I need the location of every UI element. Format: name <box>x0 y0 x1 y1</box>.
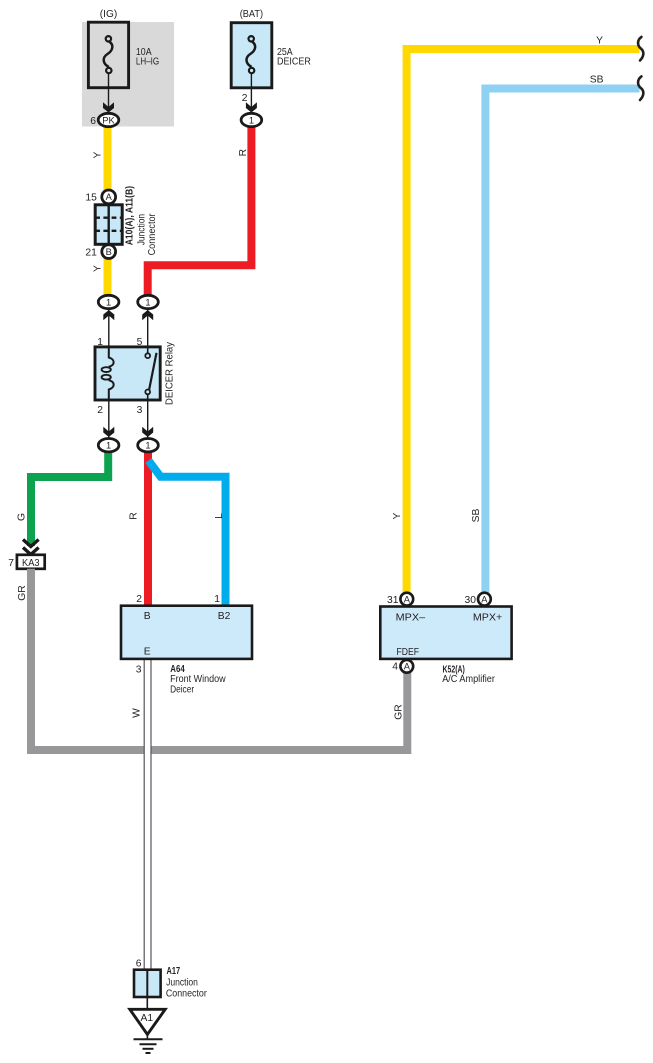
svg-text:Y: Y <box>92 265 103 272</box>
fuse 10A element <box>104 41 113 67</box>
shaded IG fuse region <box>82 22 174 127</box>
svg-text:GR: GR <box>17 585 28 600</box>
svg-text:2: 2 <box>242 93 248 104</box>
fuse 10A LH-IG box <box>88 22 128 88</box>
svg-text:L: L <box>214 513 225 519</box>
DEICER relay box <box>95 347 160 400</box>
svg-text:3: 3 <box>136 664 142 675</box>
wire Y from fuse LH-IG to junction connector and relay <box>104 120 112 302</box>
svg-text:1: 1 <box>249 115 254 125</box>
svg-text:Connector: Connector <box>147 213 158 255</box>
svg-text:2: 2 <box>97 405 103 416</box>
svg-text:A10(A), A11(B): A10(A), A11(B) <box>125 186 136 245</box>
relay switch <box>147 347 149 354</box>
svg-text:DEICER Relay: DEICER Relay <box>165 341 176 405</box>
svg-text:MPX–: MPX– <box>396 612 426 623</box>
svg-text:1: 1 <box>106 441 111 451</box>
svg-text:6: 6 <box>90 116 96 127</box>
arrow into connector PK <box>103 102 114 112</box>
connector circle B, pin 21 <box>102 245 116 259</box>
connector oval 1 (above relay pin 1) <box>98 295 119 308</box>
svg-text:1: 1 <box>106 297 111 307</box>
connector oval PK, pin 6 <box>98 113 119 126</box>
wire from fuse to connector PK <box>108 73 110 112</box>
svg-text:MPX+: MPX+ <box>473 612 502 623</box>
svg-text:A: A <box>404 594 411 604</box>
svg-text:B2: B2 <box>218 611 231 622</box>
svg-text:1: 1 <box>214 594 220 605</box>
svg-text:FDEF: FDEF <box>397 647 420 658</box>
component A64 Front Window Deicer <box>121 606 252 659</box>
wire R from relay pin 3 to A64 <box>144 448 152 606</box>
wire A17 to ground triangle <box>146 997 148 1010</box>
wire SB top-right (to K52 pin 30) <box>485 89 639 595</box>
svg-text:Connector: Connector <box>166 989 207 1000</box>
svg-text:A17: A17 <box>167 966 181 977</box>
wire oval to relay pin 1 <box>108 309 110 347</box>
svg-text:4: 4 <box>392 662 398 673</box>
svg-text:2: 2 <box>136 594 142 605</box>
svg-text:A: A <box>481 594 488 604</box>
svg-text:GR: GR <box>394 704 405 719</box>
svg-text:G: G <box>17 513 28 521</box>
connector circle A pin 31 <box>400 593 413 606</box>
svg-text:A: A <box>404 662 411 672</box>
fuse 25A element <box>246 41 255 67</box>
svg-text:15: 15 <box>85 193 97 204</box>
wire R from DEICER fuse to relay pin 5 connector <box>148 120 252 302</box>
junction connector A10(A)/A11(B) box <box>95 205 122 245</box>
connector circle A pin 4 <box>400 660 413 673</box>
arrow into connector 1 <box>246 102 257 112</box>
svg-text:Y: Y <box>596 35 603 46</box>
svg-text:SB: SB <box>590 75 604 86</box>
svg-text:21: 21 <box>85 247 97 258</box>
ground symbol <box>146 1035 148 1040</box>
wire oval to relay pin 5 <box>147 309 149 347</box>
svg-text:6: 6 <box>136 959 142 970</box>
connector circle A pin 30 <box>478 593 491 606</box>
svg-text:R: R <box>238 149 249 156</box>
svg-text:PK: PK <box>102 115 115 125</box>
wire W from A64 pin E to A17 (white wire) <box>144 659 151 970</box>
svg-text:Y: Y <box>392 512 403 519</box>
wire L from relay pin 3 to A64 B2 <box>149 461 226 607</box>
svg-text:(IG): (IG) <box>100 9 118 20</box>
svg-text:LH–IG: LH–IG <box>136 57 159 68</box>
svg-text:Junction: Junction <box>137 214 148 246</box>
svg-text:E: E <box>144 647 151 658</box>
connector circle A, pin 15 <box>102 190 116 204</box>
wire break squiggle (SB) <box>638 76 643 100</box>
svg-text:SB: SB <box>471 509 482 523</box>
double chevron arrow into KA3 <box>23 540 39 547</box>
svg-text:R: R <box>129 512 140 519</box>
relay coil <box>109 347 114 367</box>
svg-text:B: B <box>106 247 112 257</box>
svg-text:(BAT): (BAT) <box>240 9 263 20</box>
wire from fuse to connector 1 <box>250 73 252 112</box>
connector oval 1 (below relay pin 3) <box>138 439 159 452</box>
svg-text:DEICER: DEICER <box>277 57 311 68</box>
wire break squiggle (Y) <box>638 37 643 61</box>
svg-text:KA3: KA3 <box>22 558 40 569</box>
svg-text:B: B <box>144 611 151 622</box>
svg-text:Y: Y <box>92 151 103 158</box>
wire GR from KA3 to K52 pin 4 <box>31 569 407 750</box>
svg-text:30: 30 <box>465 595 477 606</box>
connector oval 1 (above relay pin 5) <box>138 295 159 308</box>
wire relay pin 2 down to oval <box>108 400 110 438</box>
arrow down (pin 3) <box>142 427 153 437</box>
svg-text:3: 3 <box>137 405 143 416</box>
arrow up (pin 5) <box>142 310 153 320</box>
svg-text:31: 31 <box>387 595 399 606</box>
ground triangle A1 <box>130 1009 165 1034</box>
svg-text:Junction: Junction <box>166 977 198 988</box>
svg-text:A/C Amplifier: A/C Amplifier <box>442 674 495 685</box>
connector oval 1 (below relay pin 2) <box>98 439 119 452</box>
arrow up (pin 1) <box>103 310 114 320</box>
svg-text:1: 1 <box>145 441 150 451</box>
svg-text:Deicer: Deicer <box>170 684 194 695</box>
svg-text:1: 1 <box>145 297 150 307</box>
connector oval 1 (BAT) <box>241 113 262 126</box>
wire Y top-right (to K52 pin 31) <box>407 49 640 594</box>
svg-text:A1: A1 <box>140 1013 153 1024</box>
wire relay pin 3 down to oval <box>147 400 149 438</box>
wire G from relay pin 2 to KA3 <box>31 448 108 546</box>
svg-text:7: 7 <box>8 558 14 569</box>
junction connector A17, pin 6 <box>134 970 161 997</box>
fuse 25A DEICER box <box>231 23 272 88</box>
connector box KA3, pin 7 <box>17 555 45 569</box>
svg-text:W: W <box>132 708 143 718</box>
component K52(A) A/C Amplifier <box>380 607 511 659</box>
svg-text:A: A <box>106 192 113 202</box>
arrow down (pin 2) <box>103 427 114 437</box>
